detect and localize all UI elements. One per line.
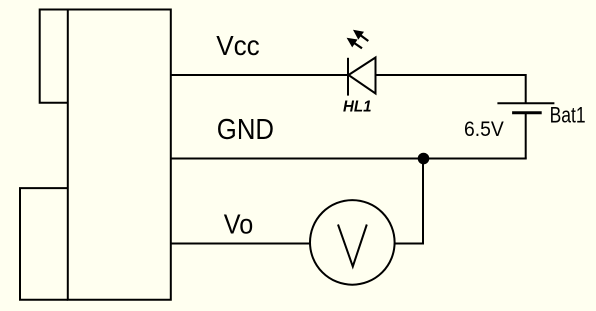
LED HL1 triangle [349,58,376,94]
voltmeter body [310,200,395,285]
wire LED anode to battery positive [376,75,526,103]
LED HL1 emission arrow 2 [347,38,362,49]
svg-text:6.5V: 6.5V [464,118,504,141]
svg-text:Bat1: Bat1 [550,102,586,127]
svg-text:Vcc: Vcc [216,30,260,61]
device bottom tab [20,188,68,300]
LED HL1 cathode bar [347,58,349,96]
device body (sensor module outline) [68,10,171,300]
wire Vcc (device pin to LED cathode) [170,74,348,76]
wire voltmeter to junction [395,243,424,245]
svg-text:HL1: HL1 [343,98,372,115]
svg-text:GND: GND [217,114,274,146]
wire Vo (device pin to voltmeter) [170,243,311,245]
svg-text:Vo: Vo [224,209,253,240]
battery Bat1 positive plate (long) [497,102,554,104]
battery Bat1 negative plate (short) [512,111,542,114]
device top tab [40,10,68,103]
voltmeter V mark [338,225,367,267]
LED HL1 emission arrow 1 [353,30,368,41]
wire battery negative down to GND net [525,113,527,159]
wire junction down to voltmeter [422,159,424,245]
wire GND (device pin to battery negative) [170,158,527,160]
junction node on GND [418,153,430,165]
